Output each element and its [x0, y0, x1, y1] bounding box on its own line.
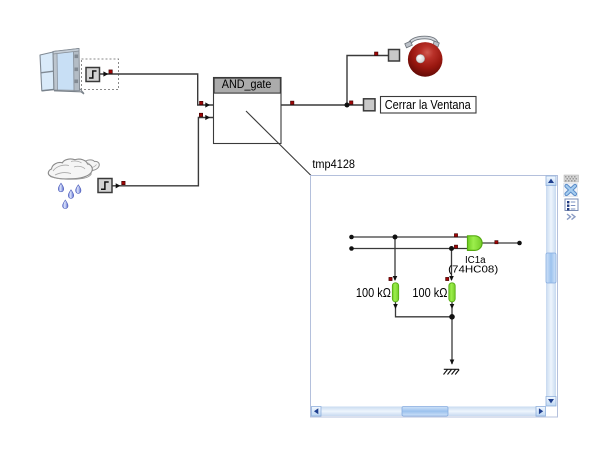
svg-text:AND_gate: AND_gate [222, 79, 272, 91]
svg-text:tmp4128: tmp4128 [312, 157, 355, 171]
svg-text:(74HC08): (74HC08) [448, 264, 498, 276]
svg-text:Cerrar la Ventana: Cerrar la Ventana [385, 97, 472, 112]
svg-text:100 kΩ: 100 kΩ [412, 286, 447, 300]
svg-text:100 kΩ: 100 kΩ [356, 286, 391, 300]
